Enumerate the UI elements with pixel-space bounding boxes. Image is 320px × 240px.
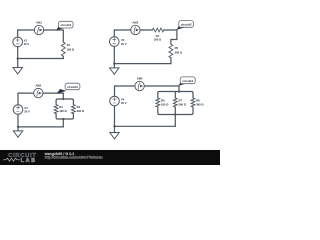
- svg-text:20 V: 20 V: [24, 110, 30, 114]
- svg-text:290 Ω: 290 Ω: [77, 109, 85, 113]
- svg-text:circuit4: circuit4: [182, 79, 193, 83]
- svg-text:circuit2: circuit2: [181, 23, 192, 27]
- svg-text:190 Ω: 190 Ω: [154, 37, 162, 41]
- value label R5 290 Ohm: [175, 46, 183, 54]
- junction: [62, 118, 64, 120]
- wire top rail left of AM3: [114, 29, 130, 31]
- voltage source V2: [110, 37, 120, 47]
- value label R7 290 Ohm: [179, 98, 187, 106]
- CircuitLab logo: [3, 153, 37, 164]
- resistor R4: [153, 28, 164, 32]
- wire bottom rail: [114, 63, 171, 65]
- svg-text:V4: V4: [121, 98, 125, 102]
- wire V3 bottom lead: [17, 114, 19, 127]
- svg-text:circuit3: circuit3: [67, 85, 78, 89]
- ammeter AM1: [34, 25, 43, 34]
- resistor R1: [61, 42, 65, 56]
- svg-text:R6: R6: [161, 98, 165, 102]
- svg-text:AM3: AM3: [133, 20, 139, 24]
- svg-text:LAB: LAB: [21, 158, 37, 164]
- junction: [17, 126, 19, 128]
- resistor R8: [191, 98, 195, 107]
- resistor R5: [169, 44, 173, 58]
- wire parallel top bar: [158, 92, 193, 98]
- ground: [110, 64, 119, 75]
- svg-text:R2: R2: [59, 105, 63, 109]
- junction: [113, 125, 115, 127]
- wire bottom rail: [18, 58, 64, 60]
- svg-text:AM4: AM4: [137, 77, 143, 81]
- wire corner stub down: [62, 93, 64, 99]
- svg-text:20 V: 20 V: [121, 42, 127, 46]
- resistor R7: [173, 98, 177, 107]
- wire stub from bottom bar: [174, 115, 176, 127]
- wire AM3 to R4: [140, 29, 152, 31]
- wire R1 bottom lead: [62, 56, 64, 58]
- wire bottom rail: [115, 125, 176, 127]
- wire V2 bottom lead: [113, 46, 115, 63]
- svg-text:circuit1: circuit1: [60, 23, 71, 27]
- wire top rail left of AM1: [18, 29, 35, 31]
- ground: [110, 126, 119, 139]
- wire parallel bottom bar: [158, 107, 193, 114]
- wire R7 top stub: [174, 92, 176, 98]
- wire parallel bottom bar: [56, 114, 73, 119]
- resistor R2: [54, 105, 58, 114]
- value label V2 20 V: [121, 38, 127, 46]
- svg-text:190 Ω: 190 Ω: [67, 48, 75, 52]
- svg-text:V3: V3: [24, 106, 28, 110]
- wire V1 bottom lead: [17, 47, 19, 59]
- node circuit1 (callout): [56, 21, 73, 30]
- wire V2 top lead: [113, 30, 115, 37]
- svg-text:20 V: 20 V: [121, 101, 127, 105]
- svg-text:290 Ω: 290 Ω: [175, 50, 183, 54]
- voltage source V3: [13, 105, 23, 115]
- value label R3 290 Ohm: [77, 105, 85, 113]
- wire V1 top lead: [17, 30, 19, 37]
- svg-text:190 Ω: 190 Ω: [161, 102, 169, 106]
- node circuit4 (callout): [178, 77, 195, 86]
- wire stub from bottom bar: [62, 119, 64, 127]
- value label R8 390 Ohm: [196, 98, 204, 106]
- wire R5 bottom lead: [170, 58, 172, 64]
- junction: [178, 90, 180, 92]
- wire parallel top bar: [56, 99, 73, 105]
- wire R7 bottom stub: [174, 107, 176, 114]
- ammeter AM4: [135, 81, 144, 90]
- wire corner down and jog left: [171, 30, 177, 44]
- wire right branch top lead: [62, 30, 64, 42]
- svg-text:R7: R7: [179, 98, 183, 102]
- voltage source V1: [13, 37, 23, 47]
- svg-text:290 Ω: 290 Ω: [179, 102, 187, 106]
- svg-text:190 Ω: 190 Ω: [59, 109, 67, 113]
- value label R6 190 Ohm: [161, 98, 169, 106]
- svg-text:390 Ω: 390 Ω: [196, 102, 204, 106]
- wire V4 top lead: [114, 86, 116, 96]
- wire top rail right of AM1: [44, 29, 64, 31]
- junction: [113, 62, 115, 64]
- footer bar: [0, 150, 220, 165]
- ammeter AM3: [131, 25, 140, 34]
- value label R1 190 Ohm: [67, 43, 75, 52]
- svg-text:R5: R5: [175, 46, 179, 50]
- svg-text:V2: V2: [121, 38, 125, 42]
- ground: [13, 59, 22, 74]
- resistor R3: [72, 105, 76, 114]
- wire top rail right of AM4: [144, 85, 179, 87]
- wire V3 top lead: [17, 93, 19, 105]
- value label R4 190 Ohm: [154, 34, 162, 41]
- svg-text:R1: R1: [67, 43, 71, 47]
- svg-text:AM2: AM2: [35, 83, 41, 87]
- wire top rail left of AM2: [18, 92, 34, 94]
- wire top rail right of AM2: [43, 92, 63, 94]
- node circuit3 (callout): [57, 83, 80, 94]
- svg-text:R3: R3: [77, 105, 81, 109]
- junction: [174, 113, 176, 115]
- voltage source V4: [110, 96, 120, 106]
- junction: [17, 57, 19, 59]
- resistor R6: [156, 98, 160, 107]
- wire V4 bottom lead: [114, 106, 116, 127]
- wire bottom rail: [18, 126, 63, 128]
- wire top rail left of AM4: [115, 85, 135, 87]
- svg-text:V1: V1: [24, 38, 28, 42]
- value label V1 20 V: [24, 38, 30, 46]
- svg-text:20 V: 20 V: [24, 42, 30, 46]
- ammeter AM2: [34, 88, 43, 97]
- svg-text:AM1: AM1: [36, 20, 42, 24]
- junction: [62, 98, 64, 100]
- value label V4 20 V: [121, 98, 127, 106]
- value label V3 20 V: [24, 106, 30, 114]
- value label R2 190 Ohm: [59, 105, 67, 113]
- wire corner stub down: [178, 86, 180, 92]
- svg-text:R8: R8: [196, 98, 200, 102]
- svg-text:http://circuitlab.com/c/d3m77f: http://circuitlab.com/c/d3m77fa6abku: [45, 155, 103, 159]
- node circuit2 (callout): [176, 21, 193, 30]
- wire R4 to corner: [164, 29, 177, 31]
- ground: [13, 127, 22, 137]
